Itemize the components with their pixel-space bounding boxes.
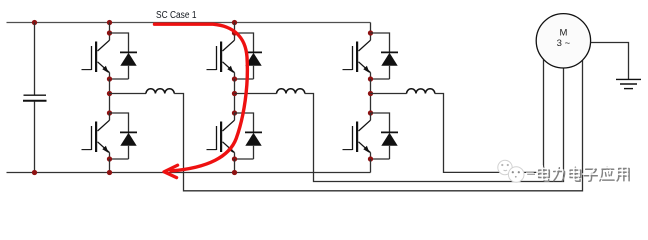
- wire motor case to ground: [591, 43, 629, 80]
- node P bus junction dot leg B: [232, 20, 237, 25]
- node emitter junction dot Q4 (phase B low): [232, 156, 237, 161]
- wire phase B node to inductor: [235, 93, 277, 95]
- node N junction dot capacitor: [32, 170, 37, 175]
- node diode tap dot Q2 (phase A low): [107, 110, 112, 115]
- wire capacitor bottom lead: [34, 102, 36, 173]
- diode D4 (phase B low): [235, 126, 263, 159]
- diode D2 (phase A low): [110, 126, 138, 159]
- IGBT Q4 (phase B low): [207, 120, 235, 159]
- wire collector lead Q5 (phase C high): [370, 23, 372, 41]
- inductor L3 phase C: [407, 89, 435, 94]
- wire phase node link leg C: [370, 79, 372, 113]
- IGBT Q1 (phase A high): [82, 40, 110, 79]
- wire DC negative bus N: [7, 172, 371, 174]
- IGBT Q2 (phase A low): [82, 120, 110, 159]
- wire collector lead Q3 (phase B high): [234, 23, 236, 41]
- wire diode branch Q5 (phase C high): [371, 33, 390, 46]
- wire diode branch Q4 (phase B low): [235, 113, 254, 126]
- wire diode branch Q1 (phase A high): [110, 33, 129, 46]
- node P junction dot capacitor: [32, 20, 37, 25]
- diode D6 (phase C low): [371, 126, 399, 159]
- node diode tap dot Q5 (phase C high): [368, 30, 373, 35]
- inductor L2 phase B: [277, 89, 305, 94]
- diode D5 (phase C high): [371, 46, 399, 79]
- wire collector lead Q1 (phase A high): [109, 23, 111, 41]
- node phase C output dot: [368, 91, 373, 96]
- IGBT Q6 (phase C low): [343, 120, 371, 159]
- wire phase C node to inductor: [371, 93, 407, 95]
- watermark dash: [526, 173, 535, 174]
- IGBT Q5 (phase C high): [343, 40, 371, 79]
- wire phase node link leg B: [234, 79, 236, 113]
- wire diode branch Q2 (phase A low): [110, 113, 129, 126]
- wire capacitor top lead: [34, 23, 36, 96]
- capacitor C1 DC link: [23, 95, 47, 101]
- ground symbol: [616, 79, 641, 88]
- wire phase A to motor: [174, 60, 582, 190]
- svg-text:3 ~: 3 ~: [557, 38, 571, 49]
- wire collector lead Q4 (phase B low): [234, 113, 236, 120]
- watermark logo circles: [498, 160, 524, 182]
- node diode tap dot Q1 (phase A high): [107, 30, 112, 35]
- node emitter junction dot Q2 (phase A low): [107, 156, 112, 161]
- diode D1 (phase A high): [110, 46, 138, 79]
- motor M1 three-phase machine: [536, 14, 590, 68]
- wire collector lead Q6 (phase C low): [370, 113, 372, 120]
- inductor L1 phase A: [146, 89, 174, 94]
- node N bus junction dot leg A: [107, 170, 112, 175]
- node emitter junction dot Q5 (phase C high): [368, 76, 373, 81]
- wire diode branch Q6 (phase C low): [371, 113, 390, 126]
- SC Case 1 short-circuit current path arrow: [155, 24, 248, 177]
- IGBT Q3 (phase B high): [207, 40, 235, 79]
- node diode tap dot Q6 (phase C low): [368, 110, 373, 115]
- wire emitter to N bus Q6 (phase C low): [370, 159, 372, 173]
- node emitter junction dot Q3 (phase B high): [232, 76, 237, 81]
- wire phase B to motor: [305, 68, 564, 181]
- wire emitter to N bus Q4 (phase B low): [234, 159, 236, 173]
- watermark text 电力电子应用 (vector glyphs): [537, 166, 629, 182]
- wire DC positive bus P: [7, 22, 371, 24]
- diode D3 (phase B high): [235, 46, 263, 79]
- wire emitter to N bus Q2 (phase A low): [109, 159, 111, 173]
- wire phase A node to inductor: [109, 93, 146, 95]
- wire diode branch Q3 (phase B high): [235, 33, 254, 46]
- node phase B output dot: [232, 91, 237, 96]
- node P bus junction dot leg A: [107, 20, 112, 25]
- wire collector lead Q2 (phase A low): [109, 113, 111, 120]
- svg-text:SC Case 1: SC Case 1: [156, 10, 197, 21]
- wire phase node link leg A: [109, 79, 111, 113]
- node emitter junction dot Q1 (phase A high): [107, 76, 112, 81]
- svg-text:M: M: [559, 28, 567, 39]
- node diode tap dot Q4 (phase B low): [232, 110, 237, 115]
- node N bus junction dot leg B: [232, 170, 237, 175]
- node diode tap dot Q3 (phase B high): [232, 30, 237, 35]
- node phase A output dot: [107, 91, 112, 96]
- wire phase C to motor: [435, 60, 544, 173]
- node emitter junction dot Q6 (phase C low): [368, 156, 373, 161]
